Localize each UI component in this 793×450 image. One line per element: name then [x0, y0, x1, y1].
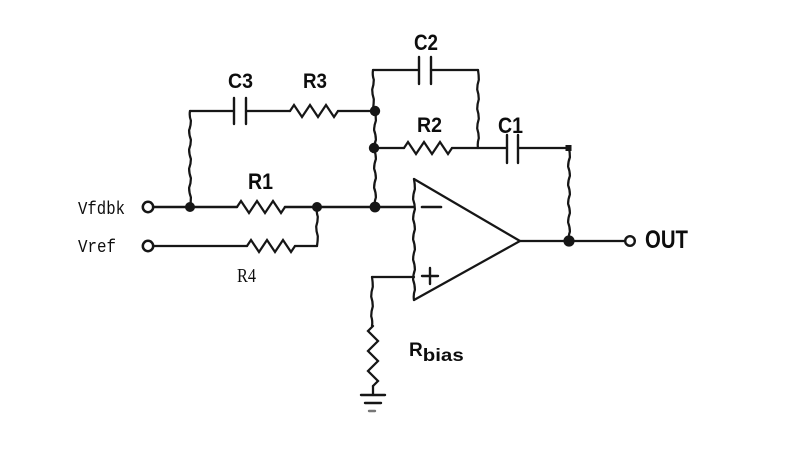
svg-text:C3: C3	[228, 70, 253, 93]
svg-text:R1: R1	[248, 169, 273, 194]
corner tick	[566, 145, 572, 151]
node C (junction main line and vertical feedback bus)	[370, 202, 381, 213]
wire to C3 left plate	[190, 110, 234, 112]
node F (output junction)	[563, 235, 574, 246]
node B (junction R1/R4)	[312, 202, 322, 212]
wire C2 loop left leg	[372, 70, 374, 109]
op-amp plus sign	[422, 268, 438, 284]
resistor R2	[404, 142, 452, 154]
svg-text:Vfdbk: Vfdbk	[78, 200, 125, 220]
ground	[361, 395, 385, 411]
wire Vref to R4	[153, 245, 247, 247]
wire vertical feedback bus node D to node C	[374, 111, 376, 207]
terminal OUT	[625, 236, 635, 246]
wire non-inverting input	[372, 276, 414, 278]
svg-text:C1: C1	[498, 113, 523, 138]
wire R1 to op-amp inverting input	[285, 206, 414, 209]
capacitor C1	[507, 135, 518, 163]
wire op-amp output to OUT terminal	[520, 240, 625, 242]
wire Vfdbk terminal to node A	[153, 206, 237, 208]
terminal Vfdbk	[143, 202, 153, 212]
resistor R4	[247, 240, 295, 252]
wire R4 to node B	[295, 245, 317, 247]
svg-text:C2: C2	[414, 30, 438, 55]
wire R2 to C1	[452, 147, 507, 149]
capacitor C3	[234, 98, 246, 124]
capacitor C2	[419, 57, 431, 84]
op-amp minus sign	[422, 206, 441, 209]
wire C1 to output bus corner	[518, 147, 569, 149]
svg-text:R3: R3	[303, 70, 327, 93]
svg-text:R4: R4	[237, 265, 256, 287]
wire C3 to R3	[246, 110, 290, 112]
wire node A up to C3 branch	[189, 111, 191, 207]
wire R3 to node D	[338, 110, 375, 112]
svg-text:Vref: Vref	[78, 238, 116, 258]
resistor R3	[290, 105, 338, 117]
node E (junction bus / R2 branch)	[369, 143, 379, 153]
terminal Vref	[143, 241, 153, 251]
resistor R1	[237, 201, 285, 213]
wire C2 right leg down to R2/C1 line	[431, 69, 478, 71]
svg-text:OUT: OUT	[645, 226, 688, 254]
wire output bus down to output node	[568, 148, 570, 241]
svg-text:Rbias: Rbias	[409, 340, 464, 365]
wire node E to R2	[374, 147, 404, 149]
node A (junction of Vfdbk line and C3 branch)	[185, 202, 195, 212]
svg-text:R2: R2	[417, 114, 442, 137]
op-amp U1	[414, 179, 520, 300]
resistor Rbias	[368, 326, 378, 386]
wire Rbias to ground	[372, 386, 374, 395]
node D (junction R3 / C2 / vertical bus)	[370, 106, 380, 116]
